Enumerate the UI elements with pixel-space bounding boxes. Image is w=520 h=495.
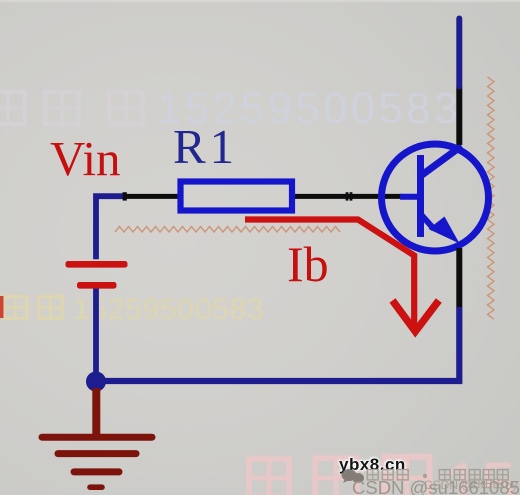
node tick mark left [123,192,127,200]
faint watermarks (background) [157,84,461,134]
bottom-right caption block [339,455,406,475]
battery V1 top plate [66,261,128,268]
ground bar 3 [74,468,119,475]
Ib arrowhead chevron [393,301,439,332]
ground bar 4 [90,484,102,490]
wire emitter black segment [456,248,462,307]
wire emitter navy to bottom rail [96,307,459,381]
transistor Q1 circle [382,144,489,251]
wire R1 to base (black) [295,194,402,199]
node junction dot [86,372,106,392]
ground bar 2 [58,450,136,457]
battery V1 bottom plate [77,282,117,289]
svg-text:Vin: Vin [50,131,121,186]
transistor Q1 emitter arrowhead [429,217,460,244]
wire collector black segment [456,87,462,146]
wire Vin to R1 (black) [124,194,180,199]
Ib current path (red) [245,220,414,329]
transistor Q1 collector stroke [421,146,462,176]
ground bar 1 [42,434,152,441]
transistor Q1 base lead [400,194,418,200]
svg-text:R1: R1 [173,119,238,174]
wire junction to ground (maroon) [92,388,100,436]
background watermark han glyphs, decorative [0,92,143,124]
resistor R1 [181,182,293,211]
wire collector navy segment (top) [456,19,462,87]
wire battery to junction [93,289,99,382]
wire input L from battery top to tick [96,196,123,259]
transistor Q1 base bar [417,155,424,237]
transistor Q1 emitter stroke [421,214,435,229]
svg-text:Ib: Ib [287,236,329,292]
node tick marks mid [346,192,349,200]
